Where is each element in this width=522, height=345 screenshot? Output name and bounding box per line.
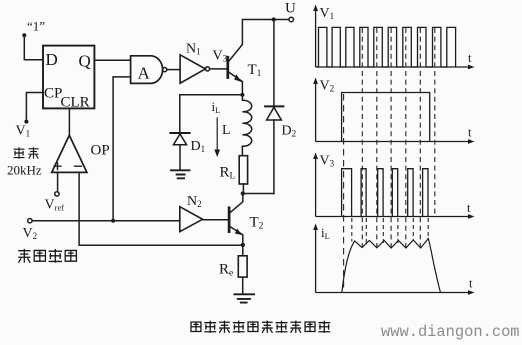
node Vref terminal: [55, 192, 59, 196]
resistor RL: [239, 156, 247, 184]
node junction RL/T2/D2: [241, 191, 245, 195]
transistor T2: [228, 208, 231, 232]
waveform V3: [342, 169, 428, 217]
svg-text:www.diangon.com: www.diangon.com: [381, 323, 520, 341]
svg-text:“1”: “1”: [27, 19, 45, 34]
svg-text:t: t: [469, 277, 473, 291]
diode D2: [273, 20, 275, 106]
flip-flop U1 box: [43, 46, 94, 109]
wire top rail to U: [242, 19, 288, 21]
text 方波: [14, 147, 39, 158]
wire from "1" to D input: [24, 35, 43, 60]
svg-text:CLR: CLR: [61, 95, 90, 111]
wire A to N1: [167, 69, 180, 71]
waveform V2: [342, 93, 430, 142]
svg-text:t: t: [468, 126, 472, 140]
svg-text:OP: OP: [91, 143, 110, 159]
timing diagram axes: [316, 9, 470, 293]
svg-text:Q: Q: [79, 52, 91, 71]
waveform V1: [316, 27, 456, 67]
ground below Re: [234, 294, 254, 302]
axis V1: [315, 9, 317, 67]
axis V3: [315, 157, 317, 217]
svg-text:t: t: [467, 201, 471, 215]
wire N2 to T2 base: [203, 219, 230, 221]
node junction T2 emitter/Re: [241, 243, 245, 247]
ground below D1: [171, 170, 189, 178]
svg-text:A: A: [138, 64, 151, 83]
svg-text:D: D: [46, 50, 58, 69]
dashed timing guides: [344, 28, 435, 290]
wire - input feedback to Re top: [79, 172, 243, 245]
inverter N1: [180, 55, 205, 83]
inductor L: [242, 95, 251, 156]
op-amp OP: [52, 135, 87, 172]
wire A lower input: [113, 77, 131, 221]
node junction V2/A: [111, 219, 115, 223]
text 步进信号: [18, 249, 76, 263]
node V1 terminal: [24, 120, 28, 124]
diode D1: [170, 132, 189, 134]
axis V2: [315, 82, 317, 142]
inverter N2: [180, 207, 203, 232]
transistor T1: [226, 57, 229, 77]
node junction T1 emitter: [240, 93, 244, 97]
node junction top D2: [272, 17, 276, 21]
wire CLR to op-amp: [68, 108, 70, 135]
wire N1 to T1 base: [210, 68, 228, 70]
svg-text:L: L: [222, 123, 231, 138]
waveform iL: [342, 239, 441, 293]
text caption 恒频脉宽调制功放电路: [191, 321, 330, 333]
wire node to D2 bottom: [243, 193, 274, 195]
wire + input to Vref: [57, 172, 59, 191]
node U terminal: [289, 17, 294, 22]
axis iL: [315, 228, 317, 293]
svg-text:20kHz: 20kHz: [7, 163, 42, 178]
gate A: [131, 56, 163, 84]
wire to D1: [180, 95, 243, 132]
svg-text:t: t: [468, 51, 472, 65]
svg-text:U: U: [285, 1, 296, 17]
wire Q output: [94, 59, 130, 61]
resistor Re: [238, 256, 247, 277]
wire CP input: [26, 93, 43, 120]
node V2 terminal: [28, 219, 32, 223]
arrow iL: [216, 118, 218, 151]
wire V2 line to N2: [32, 220, 180, 222]
node "1" terminal: [22, 33, 26, 37]
